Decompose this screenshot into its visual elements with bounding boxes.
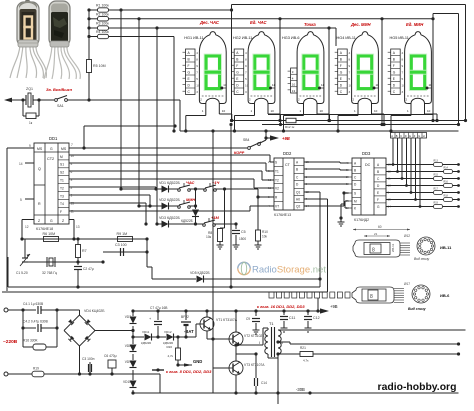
svg-text:R7: R7	[82, 249, 87, 253]
svg-text:F: F	[188, 64, 190, 68]
svg-text:C1 5-20: C1 5-20	[16, 271, 28, 275]
svg-text:R21: R21	[300, 346, 306, 350]
svg-text:10: 10	[402, 84, 406, 88]
tube HG3 outline	[297, 32, 324, 104]
tube HG2 base arch	[255, 98, 269, 103]
wire DD2 Q1 down	[304, 191, 320, 193]
svg-text:C7 47μ 16В: C7 47μ 16В	[150, 306, 168, 310]
svg-text:C2 47μ: C2 47μ	[83, 267, 94, 271]
tube HG4 outline	[352, 32, 379, 104]
tube HG2 grid mesh	[251, 95, 273, 97]
ground DD3	[340, 218, 342, 222]
heater bus lower	[262, 124, 459, 126]
svg-text:R5 10М: R5 10М	[93, 64, 106, 68]
svg-text:BF22: BF22	[181, 315, 189, 319]
red note DD power	[156, 368, 159, 371]
svg-text:~220В: ~220В	[3, 339, 18, 345]
svg-text:SB4: SB4	[243, 138, 250, 142]
svg-text:R20: R20	[166, 345, 172, 349]
svg-text:к выв. 16 DD1, DD2, DD3: к выв. 16 DD1, DD2, DD3	[257, 304, 305, 309]
tube HG2 right leg	[267, 104, 269, 115]
zener VD8	[132, 337, 134, 344]
svg-text:Z: Z	[38, 219, 40, 223]
svg-text:HG3 ИВ-6: HG3 ИВ-6	[282, 36, 300, 40]
svg-text:C4.1 1μ 630В: C4.1 1μ 630В	[23, 302, 44, 306]
tube HG5 pin ladder	[391, 49, 401, 95]
resistor bypass	[21, 98, 24, 101]
resistor R9	[118, 237, 133, 242]
svg-text:Z: Z	[62, 219, 64, 223]
svg-text:5: 5	[349, 77, 351, 81]
svg-text:VT1 КТ3107А: VT1 КТ3107А	[216, 318, 238, 322]
left rail	[6, 148, 8, 291]
svg-text:3: 3	[349, 90, 351, 94]
button SB3	[169, 223, 196, 225]
svg-text:1500: 1500	[239, 237, 246, 241]
segment bus line	[180, 130, 459, 132]
IV-11 side view drawing	[353, 240, 400, 257]
segment resistors R13-R19	[386, 164, 459, 166]
transistor VT1 emitter wire	[206, 331, 208, 339]
watermark RadioStorage globe	[238, 262, 250, 274]
svg-text:+9В: +9В	[282, 136, 290, 141]
svg-text:3: 3	[196, 90, 198, 94]
resistor R1	[89, 9, 98, 11]
svg-text:G: G	[188, 71, 191, 75]
top rail B	[433, 13, 459, 15]
resistor R21	[278, 353, 300, 355]
svg-text:7: 7	[71, 143, 73, 147]
svg-text:C3 100: C3 100	[115, 243, 127, 247]
DD1 pin 5 stub	[25, 198, 34, 200]
svg-text:VD5 КД522Б: VD5 КД522Б	[190, 271, 210, 275]
capacitor C3	[120, 248, 122, 256]
svg-text:Ед. ЧАС: Ед. ЧАС	[250, 20, 267, 25]
svg-text:Т1: Т1	[269, 322, 273, 326]
svg-text:SA1: SA1	[57, 104, 64, 108]
tube HG4 grid mesh	[354, 95, 376, 97]
svg-text:МИН: МИН	[186, 197, 195, 202]
svg-text:ИВ-6: ИВ-6	[440, 293, 450, 298]
zener VD9	[132, 354, 134, 360]
wire secondary down	[277, 354, 279, 404]
wire pads to 9V arrow	[317, 298, 319, 311]
transformer T1 core	[271, 327, 273, 357]
svg-text:10: 10	[320, 109, 324, 113]
switch SB4	[248, 147, 251, 150]
svg-text:GND: GND	[193, 359, 202, 364]
label +9V main	[320, 308, 329, 313]
svg-text:VT2 КТ3102Б: VT2 КТ3102Б	[244, 334, 264, 338]
tube HG1 digit	[206, 56, 219, 89]
tube HG5 outline	[405, 32, 432, 104]
svg-text:R15: R15	[434, 174, 439, 177]
svg-text:60: 60	[378, 225, 382, 229]
svg-text:7: 7	[402, 71, 404, 75]
svg-text:HG5 ИВ-11: HG5 ИВ-11	[390, 36, 409, 40]
bottom rail -30V	[133, 392, 459, 394]
wire DD1-DD2 S2	[69, 170, 262, 172]
svg-text:4,7к: 4,7к	[303, 359, 309, 363]
wire DD2 H0 down	[304, 198, 328, 200]
svg-text:A: A	[391, 134, 393, 138]
svg-text:M: M	[354, 200, 357, 204]
svg-text:10: 10	[349, 84, 353, 88]
capacitor C9	[254, 309, 257, 312]
svg-text:C: C	[400, 134, 402, 138]
heater bus upper	[232, 120, 286, 122]
tube HG3 left leg	[303, 104, 305, 116]
tube HG4 dot pin	[373, 87, 376, 90]
wire 9V top rail	[133, 310, 320, 312]
svg-text:VD11: VD11	[142, 330, 150, 334]
svg-text:RadioStorage.net: RadioStorage.net	[252, 265, 326, 276]
svg-text:VD1 КД522Б: VD1 КД522Б	[159, 181, 181, 185]
svg-text:B: B	[354, 169, 356, 173]
button SB1	[169, 188, 180, 190]
svg-text:Ø17: Ø17	[404, 282, 410, 286]
svg-text:Точка: Точка	[304, 22, 316, 27]
svg-text:R19: R19	[434, 202, 439, 205]
svg-text:CT: CT	[285, 163, 291, 167]
capacitor C3b 100n	[88, 372, 91, 375]
zener VD7	[130, 317, 137, 324]
svg-text:HG2 ИВ-11: HG2 ИВ-11	[233, 36, 252, 40]
svg-text:VD12: VD12	[164, 330, 172, 334]
wire grid line 2	[111, 18, 433, 20]
tube HG2 left leg	[254, 104, 256, 116]
svg-text:5: 5	[20, 198, 22, 202]
svg-text:R17: R17	[434, 188, 439, 191]
mid vertical 2	[230, 125, 232, 288]
DD1 pin 14 stub	[25, 162, 34, 164]
capacitor C6	[110, 372, 113, 375]
svg-text:R14: R14	[444, 167, 449, 170]
tube HG1 outline	[199, 32, 226, 104]
wire secondary center tap	[276, 340, 279, 343]
svg-text:VD9: VD9	[125, 360, 131, 364]
diode VD1	[162, 186, 169, 193]
svg-text:C4.2 0,47μ 630В: C4.2 0,47μ 630В	[23, 320, 49, 324]
svg-text:DC: DC	[365, 163, 371, 167]
svg-text:5: 5	[245, 77, 247, 81]
DD1 pin 7 wire	[69, 147, 247, 149]
wire hour-set line	[87, 98, 90, 101]
svg-text:ИВ-11: ИВ-11	[440, 245, 452, 250]
resistor R4	[89, 36, 98, 38]
svg-text:5: 5	[196, 77, 198, 81]
tube HG3 pin ladder	[291, 68, 298, 93]
svg-text:8: 8	[349, 58, 351, 62]
IV-6 side pins	[394, 289, 404, 303]
wire DD2 Q2	[304, 205, 344, 207]
IV-11 side pins	[400, 243, 410, 255]
svg-text:12: 12	[25, 225, 29, 229]
svg-text:-30В: -30В	[296, 387, 305, 392]
ground rail wire	[178, 364, 192, 366]
svg-text:11: 11	[268, 186, 271, 190]
svg-text:+9В: +9В	[330, 304, 338, 309]
connector pads X1	[269, 292, 274, 298]
svg-text:T1: T1	[275, 170, 279, 174]
wire secondary top long	[278, 329, 466, 331]
capacitor C2	[78, 261, 103, 263]
svg-text:9: 9	[196, 64, 198, 68]
wire oscillator bottom	[25, 261, 103, 263]
svg-text:B: B	[396, 134, 398, 138]
svg-text:15: 15	[71, 202, 75, 206]
transformer T1 secondary	[278, 330, 281, 336]
tube HG1 right leg	[218, 104, 220, 115]
tube HG3 dot pin	[318, 87, 321, 90]
svg-text:V2: V2	[275, 187, 279, 191]
resistor R6	[44, 237, 59, 242]
svg-text:4: 4	[196, 51, 198, 55]
svg-text:5: 5	[402, 77, 404, 81]
svg-text:C3 100н: C3 100н	[82, 357, 95, 361]
svg-text:B: B	[296, 168, 298, 172]
svg-text:T1: T1	[60, 179, 64, 183]
wire T-bus junction	[84, 125, 175, 127]
svg-text:T3: T3	[60, 194, 64, 198]
wire DD3 M K common	[345, 200, 349, 202]
tube HG5 dot pin	[426, 87, 429, 90]
tube HG3 right leg	[316, 104, 318, 115]
diode VD5	[197, 276, 204, 283]
IV-11 bottom view circle	[417, 237, 435, 255]
tube HG4 base arch	[358, 98, 372, 103]
input arrow	[4, 98, 12, 103]
tube HG1 grid mesh	[202, 95, 224, 97]
svg-text:R: R	[38, 202, 41, 206]
svg-text:CT2: CT2	[47, 157, 54, 161]
svg-text:VD10: VD10	[123, 380, 131, 384]
wire DD1 T4 bend	[69, 202, 146, 204]
svg-text:HG1 ИВ-11: HG1 ИВ-11	[184, 36, 203, 40]
wire DD1 T3 bend	[69, 194, 150, 196]
tube HG1 dot pin	[220, 87, 223, 90]
svg-text:-BAT: -BAT	[184, 329, 194, 334]
svg-text:9: 9	[245, 64, 247, 68]
svg-text:M: M	[60, 155, 63, 159]
svg-text:R18: R18	[444, 195, 449, 198]
svg-text:9: 9	[349, 64, 351, 68]
resistor R19	[32, 371, 44, 377]
tube HG4 left leg	[357, 104, 359, 116]
tube HG1 base arch	[206, 98, 220, 103]
wire M junction	[69, 154, 270, 156]
wire BAT down	[195, 324, 197, 337]
tube HG3 base arch	[304, 98, 318, 103]
wire drop between tubes 1-2	[231, 5, 233, 121]
tube HG4 digit	[358, 56, 371, 89]
svg-text:7: 7	[196, 71, 198, 75]
ground C5	[233, 244, 240, 246]
wire SB junction vertical	[194, 204, 197, 207]
svg-text:F: F	[340, 64, 342, 68]
wire bridge plus	[95, 330, 133, 332]
resistor R12	[286, 118, 296, 123]
svg-text:R4 100к: R4 100к	[96, 30, 109, 34]
svg-text:R10: R10	[262, 230, 268, 234]
svg-text:S2: S2	[60, 171, 64, 175]
wire T-bus jog	[83, 126, 85, 148]
resistor R2	[89, 18, 98, 20]
svg-text:14: 14	[19, 162, 23, 166]
wire SB5 to DD2	[223, 187, 226, 190]
tube HG5 base arch	[411, 98, 425, 103]
svg-text:Q: Q	[38, 167, 41, 171]
svg-text:11: 11	[272, 83, 275, 87]
wire grid line 1	[111, 9, 232, 11]
svg-text:HG4 ИВ-11: HG4 ИВ-11	[337, 36, 356, 40]
svg-text:к выв. 8 DD1, DD2, DD3: к выв. 8 DD1, DD2, DD3	[166, 369, 212, 374]
svg-text:ЧАС: ЧАС	[186, 180, 195, 185]
svg-text:КД522Б: КД522Б	[141, 341, 151, 345]
svg-text:8: 8	[402, 58, 404, 62]
svg-text:E: E	[377, 191, 379, 195]
svg-text:Дес. МИН: Дес. МИН	[350, 22, 372, 27]
capacitor C11	[282, 309, 285, 312]
tube HG5 right leg	[424, 104, 426, 115]
svg-text:+1М: +1М	[211, 215, 220, 220]
tube HG5 grid mesh	[407, 95, 429, 97]
svg-text:Ø12: Ø12	[404, 234, 410, 238]
svg-text:ИВ-11: ИВ-11	[391, 243, 395, 252]
svg-text:Дес. ЧАС: Дес. ЧАС	[199, 20, 220, 25]
svg-text:T4: T4	[60, 202, 64, 206]
crystal ZQ2	[25, 261, 44, 263]
wire left bus	[88, 10, 90, 60]
svg-text:10: 10	[271, 109, 275, 113]
svg-text:13: 13	[292, 89, 296, 93]
svg-text:F: F	[236, 64, 238, 68]
svg-text:S: S	[275, 161, 277, 165]
tube HG4 right leg	[371, 104, 373, 115]
svg-text:radio-hobby.org: radio-hobby.org	[378, 382, 457, 393]
svg-text:C14: C14	[261, 381, 267, 385]
svg-text:R19: R19	[33, 367, 39, 371]
svg-text:10: 10	[292, 83, 296, 87]
svg-text:8: 8	[196, 58, 198, 62]
capacitor C4.2	[21, 308, 24, 311]
svg-text:32 768 Гц: 32 768 Гц	[42, 271, 57, 275]
svg-text:4: 4	[349, 51, 351, 55]
svg-text:G: G	[393, 71, 396, 75]
tube HG3 digit	[304, 56, 317, 89]
svg-text:К176ИД2: К176ИД2	[354, 218, 369, 222]
svg-text:MS: MS	[37, 147, 43, 151]
svg-text:C6 470μ: C6 470μ	[104, 354, 117, 358]
svg-text:E: E	[409, 134, 411, 138]
button SB5	[194, 187, 197, 190]
svg-text:F: F	[60, 210, 62, 214]
capacitor C14	[254, 352, 257, 355]
IV-6 side view drawing	[352, 287, 394, 303]
svg-text:7: 7	[245, 71, 247, 75]
transistor VT2	[229, 332, 243, 346]
svg-text:S1: S1	[60, 163, 64, 167]
svg-text:R13: R13	[434, 160, 439, 163]
wire DD1 T2 bend	[69, 186, 156, 188]
svg-text:DD1: DD1	[49, 136, 58, 141]
wire DD1 F	[69, 210, 250, 212]
svg-text:VD4 КЦ402Б: VD4 КЦ402Б	[84, 309, 105, 313]
tube HG2 outline	[248, 32, 275, 104]
zener VD10	[132, 370, 134, 380]
svg-text:11: 11	[321, 83, 324, 87]
tube HG1 left leg	[205, 104, 207, 116]
svg-text:R12 1к: R12 1к	[285, 125, 295, 129]
wire drop to VD3 row	[155, 26, 158, 29]
svg-text:T2: T2	[60, 186, 64, 190]
svg-text:S: S	[354, 192, 356, 196]
mid vertical from tubes	[212, 131, 214, 393]
svg-text:9: 9	[29, 144, 31, 148]
ground R10	[255, 244, 262, 246]
resistor R8	[218, 229, 223, 242]
svg-text:R16: R16	[444, 181, 449, 184]
wire oscillator top	[22, 238, 147, 240]
svg-text:B: B	[377, 170, 379, 174]
capacitor C7	[156, 309, 159, 312]
svg-text:VD8: VD8	[125, 344, 131, 348]
svg-text:DD3: DD3	[362, 151, 371, 156]
svg-text:G: G	[236, 71, 239, 75]
svg-text:C12: C12	[313, 316, 320, 320]
svg-text:8: 8	[370, 294, 373, 300]
wire DD1-DD2 S1	[69, 162, 266, 164]
svg-text:4: 4	[245, 51, 247, 55]
svg-text:8: 8	[245, 58, 247, 62]
trimmer C1	[24, 239, 26, 258]
svg-text:R1 100к: R1 100к	[96, 4, 109, 8]
svg-text:10: 10	[245, 84, 249, 88]
svg-text:R3 100к: R3 100к	[96, 22, 109, 26]
wire drop between tubes 2-3	[278, 17, 281, 20]
svg-text:F: F	[393, 64, 395, 68]
wire R8 branch	[224, 189, 226, 228]
wire drop tube 5 right	[432, 19, 434, 121]
svg-text:Вид снизу: Вид снизу	[414, 257, 429, 261]
resistor R10	[256, 230, 261, 241]
svg-text:C9: C9	[246, 317, 250, 321]
svg-text:Зв. Вкл/Выкл: Зв. Вкл/Выкл	[46, 87, 73, 92]
svg-text:D: D	[405, 134, 407, 138]
svg-text:T2: T2	[275, 179, 279, 183]
svg-text:КД522Б: КД522Б	[181, 219, 193, 223]
wire osc output	[146, 239, 148, 267]
svg-text:Q1: Q1	[296, 191, 300, 195]
diode VD11	[133, 336, 144, 338]
svg-text:10: 10	[196, 84, 200, 88]
svg-text:G: G	[418, 134, 420, 138]
resistor R5	[87, 60, 92, 73]
svg-text:11: 11	[429, 83, 432, 87]
svg-text:R2 100к: R2 100к	[96, 12, 109, 16]
svg-text:11: 11	[376, 83, 379, 87]
svg-text:2: 2	[71, 186, 73, 190]
tube HG5 digit	[411, 56, 424, 89]
tube HG2 dot pin	[269, 87, 272, 90]
resistor R20	[176, 335, 179, 338]
wire mains bottom to rail	[80, 373, 161, 375]
resistor R16	[22, 328, 24, 347]
wire BAT tap	[132, 326, 134, 337]
photo IV-11 tube sample right	[44, 1, 80, 79]
diode VD3	[162, 221, 169, 228]
button SB2	[169, 205, 180, 207]
